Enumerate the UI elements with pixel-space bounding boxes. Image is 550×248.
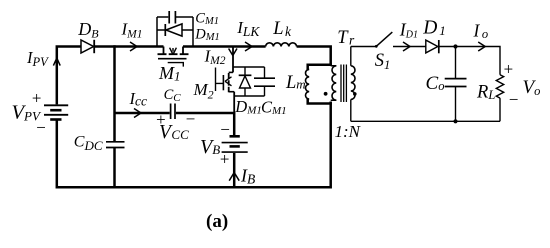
svg-text:Icc: Icc bbox=[129, 89, 147, 109]
svg-text:ILK: ILK bbox=[236, 18, 260, 39]
svg-text:IPV: IPV bbox=[26, 48, 49, 69]
svg-text:VB: VB bbox=[200, 136, 220, 158]
svg-text:−: − bbox=[219, 120, 230, 139]
svg-text:DM1: DM1 bbox=[234, 97, 262, 117]
svg-text:1:N: 1:N bbox=[335, 122, 362, 141]
svg-text:IM2: IM2 bbox=[204, 46, 226, 67]
svg-text:CM1: CM1 bbox=[261, 97, 287, 117]
svg-text:(a): (a) bbox=[206, 211, 228, 232]
svg-text:DB: DB bbox=[77, 19, 99, 41]
svg-text:D1: D1 bbox=[422, 18, 446, 39]
svg-text:S1: S1 bbox=[375, 51, 391, 72]
svg-text:−: − bbox=[508, 90, 519, 109]
svg-text:CC: CC bbox=[164, 87, 182, 104]
svg-text:Tr: Tr bbox=[337, 28, 355, 48]
svg-text:CM1: CM1 bbox=[195, 10, 219, 27]
svg-text:−: − bbox=[35, 118, 46, 137]
svg-text:CDC: CDC bbox=[74, 133, 103, 153]
svg-text:+: + bbox=[503, 59, 514, 78]
svg-text:−: − bbox=[185, 109, 196, 128]
svg-text:Lk: Lk bbox=[272, 19, 292, 39]
svg-text:M2: M2 bbox=[193, 80, 214, 102]
svg-text:ID1: ID1 bbox=[399, 20, 418, 41]
svg-text:+: + bbox=[219, 150, 230, 169]
svg-text:Io: Io bbox=[473, 20, 489, 41]
svg-text:IB: IB bbox=[240, 166, 255, 187]
svg-text:+: + bbox=[155, 110, 166, 129]
svg-text:Lm: Lm bbox=[285, 73, 306, 93]
svg-text:+: + bbox=[31, 88, 42, 107]
svg-text:IM1: IM1 bbox=[121, 20, 143, 41]
svg-text:Vo: Vo bbox=[523, 77, 541, 98]
svg-text:Co: Co bbox=[426, 73, 445, 94]
svg-text:M1: M1 bbox=[158, 63, 181, 83]
svg-text:RL: RL bbox=[476, 83, 495, 103]
svg-text:DM1: DM1 bbox=[194, 26, 219, 43]
